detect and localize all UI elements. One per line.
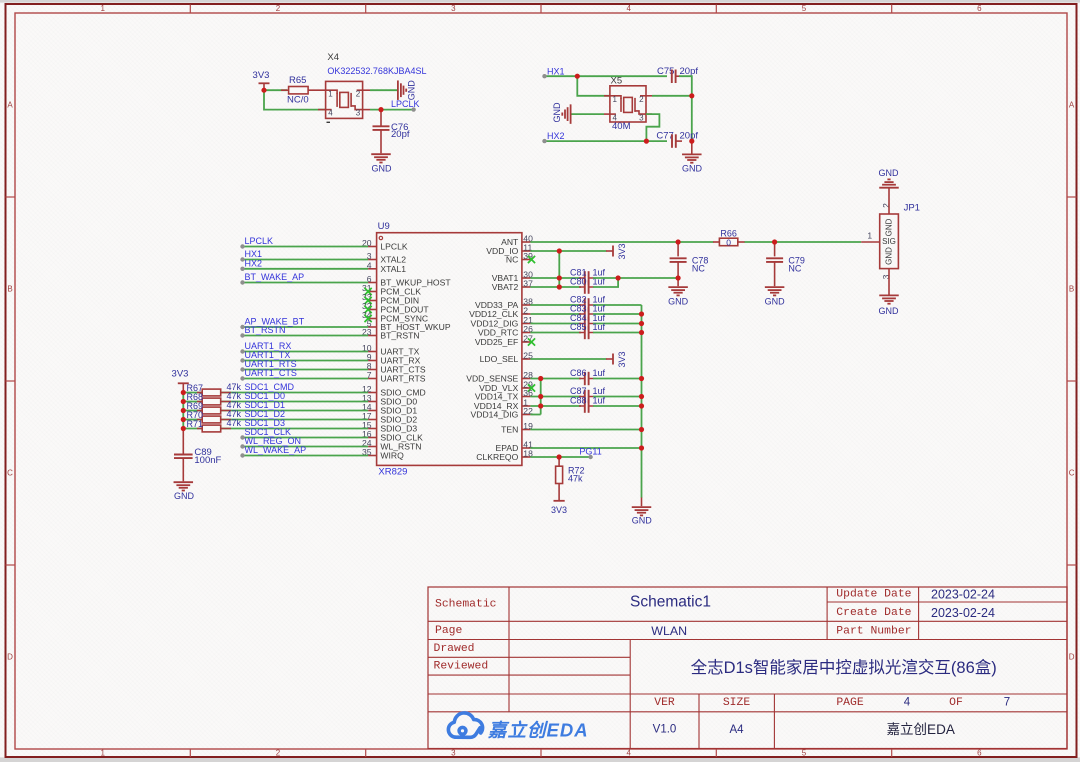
svg-text:2: 2	[276, 749, 281, 758]
svg-text:1uf: 1uf	[593, 304, 606, 314]
svg-text:GND: GND	[668, 296, 689, 306]
svg-text:100nF: 100nF	[194, 455, 221, 466]
svg-text:B: B	[1069, 285, 1074, 294]
svg-text:GND: GND	[552, 102, 562, 123]
svg-text:C87: C87	[570, 386, 587, 396]
svg-text:1uf: 1uf	[593, 396, 606, 406]
svg-text:C88: C88	[570, 396, 587, 406]
svg-text:HX2: HX2	[245, 258, 263, 268]
svg-text:LPCLK: LPCLK	[380, 242, 407, 252]
svg-text:2023-02-24: 2023-02-24	[931, 606, 995, 620]
svg-text:20pf: 20pf	[391, 129, 410, 140]
svg-text:C86: C86	[570, 368, 587, 378]
svg-text:Create Date: Create Date	[836, 607, 911, 619]
svg-text:VDD_SENSE: VDD_SENSE	[466, 374, 518, 384]
svg-text:3V3: 3V3	[551, 505, 567, 515]
svg-text:4: 4	[626, 749, 631, 758]
svg-text:2: 2	[356, 89, 361, 98]
svg-text:Schematic: Schematic	[435, 599, 497, 611]
svg-text:3V3: 3V3	[253, 70, 270, 81]
svg-text:Drawed: Drawed	[434, 643, 475, 655]
svg-text:6: 6	[977, 749, 982, 758]
svg-text:3V3: 3V3	[617, 351, 627, 367]
svg-text:4: 4	[328, 109, 333, 118]
svg-text:1: 1	[867, 231, 872, 241]
svg-text:R65: R65	[289, 75, 306, 86]
svg-text:WL_WAKE_AP: WL_WAKE_AP	[245, 445, 307, 455]
svg-text:SIZE: SIZE	[723, 697, 751, 709]
svg-text:C80: C80	[570, 277, 587, 287]
svg-text:NC: NC	[506, 255, 518, 265]
svg-text:C85: C85	[570, 322, 587, 332]
svg-text:BT_WAKE_AP: BT_WAKE_AP	[245, 272, 305, 282]
svg-text:VDD12_CLK: VDD12_CLK	[469, 309, 518, 319]
svg-text:VER: VER	[654, 697, 675, 709]
svg-text:0: 0	[726, 237, 731, 247]
svg-text:4: 4	[904, 697, 911, 709]
svg-text:XR829: XR829	[378, 467, 407, 478]
svg-text:3V3: 3V3	[172, 368, 189, 379]
svg-text:HX2: HX2	[547, 131, 565, 141]
svg-text:D: D	[1069, 653, 1075, 662]
svg-text:3: 3	[356, 109, 361, 118]
svg-text:GND: GND	[765, 296, 786, 306]
svg-text:X4: X4	[327, 52, 339, 63]
svg-text:GND: GND	[682, 163, 703, 173]
svg-text:Update Date: Update Date	[836, 589, 911, 601]
svg-text:20pf: 20pf	[680, 131, 699, 142]
svg-text:2: 2	[523, 306, 528, 316]
svg-text:NC: NC	[788, 264, 801, 274]
svg-text:5: 5	[802, 4, 807, 13]
svg-text:2: 2	[639, 95, 644, 104]
svg-text:GND: GND	[885, 247, 894, 265]
svg-text:GND: GND	[632, 516, 653, 526]
svg-text:A4: A4	[729, 724, 744, 736]
svg-text:B: B	[7, 285, 12, 294]
svg-text:LDO_SEL: LDO_SEL	[480, 354, 519, 364]
svg-text:WLAN: WLAN	[651, 624, 687, 638]
svg-text:4: 4	[626, 4, 631, 13]
svg-text:A: A	[7, 101, 13, 110]
svg-text:V1.0: V1.0	[653, 724, 677, 736]
svg-text:X5: X5	[611, 76, 623, 87]
svg-text:5: 5	[802, 749, 807, 758]
svg-text:VDD14_DIG: VDD14_DIG	[471, 410, 519, 420]
svg-text:U9: U9	[378, 221, 390, 232]
svg-text:1: 1	[100, 749, 105, 758]
svg-text:4: 4	[613, 113, 618, 122]
svg-text:47k: 47k	[568, 473, 583, 483]
svg-text:3V3: 3V3	[617, 243, 627, 259]
svg-text:1uf: 1uf	[593, 322, 606, 332]
svg-text:C83: C83	[570, 304, 587, 314]
svg-text:C: C	[1069, 469, 1075, 478]
svg-text:D: D	[7, 653, 13, 662]
svg-text:XTAL1: XTAL1	[380, 264, 406, 274]
svg-text:CLKREQO: CLKREQO	[476, 452, 518, 462]
svg-text:NC: NC	[692, 264, 705, 274]
svg-text:Part Number: Part Number	[836, 626, 911, 638]
svg-text:VDD25_EF: VDD25_EF	[475, 337, 518, 347]
svg-text:HX1: HX1	[547, 66, 565, 76]
svg-text:Reviewed: Reviewed	[434, 661, 489, 673]
svg-text:VDD_RTC: VDD_RTC	[478, 328, 518, 338]
svg-text:JP1: JP1	[904, 203, 920, 214]
svg-text:BT_RSTN: BT_RSTN	[380, 331, 419, 341]
svg-text:C: C	[7, 469, 13, 478]
svg-text:OK322532.768KJBA4SL: OK322532.768KJBA4SL	[327, 66, 426, 76]
svg-text:LPCLK: LPCLK	[391, 99, 420, 109]
svg-text:BT_RSTN: BT_RSTN	[245, 325, 286, 335]
svg-text:NC/0: NC/0	[287, 94, 309, 105]
svg-text:UART_RTS: UART_RTS	[380, 374, 425, 384]
svg-text:6: 6	[977, 4, 982, 13]
svg-text:VDD14_TX: VDD14_TX	[475, 392, 519, 402]
svg-text:GND: GND	[879, 306, 900, 316]
svg-text:3: 3	[451, 4, 456, 13]
svg-text:2023-02-24: 2023-02-24	[931, 587, 995, 601]
svg-text:嘉立创EDA: 嘉立创EDA	[487, 719, 589, 740]
svg-text:GND: GND	[885, 218, 894, 236]
svg-text:3: 3	[639, 113, 644, 122]
svg-text:UART1_CTS: UART1_CTS	[245, 368, 297, 378]
svg-text:GND: GND	[407, 80, 417, 101]
svg-text:1: 1	[328, 89, 333, 98]
svg-text:2: 2	[276, 4, 281, 13]
svg-text:PAGE: PAGE	[836, 697, 864, 709]
svg-text:OF: OF	[949, 697, 963, 709]
svg-text:20pf: 20pf	[680, 66, 699, 77]
svg-text:Page: Page	[435, 625, 463, 637]
svg-text:1uf: 1uf	[593, 368, 606, 378]
svg-text:WIRQ: WIRQ	[380, 451, 404, 461]
svg-text:7: 7	[1004, 697, 1010, 709]
svg-text:1uf: 1uf	[593, 386, 606, 396]
svg-text:1: 1	[613, 95, 618, 104]
svg-text:TEN: TEN	[501, 425, 518, 435]
svg-text:VBAT2: VBAT2	[492, 282, 519, 292]
svg-text:Schematic1: Schematic1	[630, 594, 711, 611]
svg-text:GND: GND	[372, 163, 393, 173]
svg-text:SIG: SIG	[882, 237, 896, 246]
svg-text:LPCLK: LPCLK	[245, 236, 274, 246]
svg-text:47k: 47k	[227, 418, 242, 428]
svg-text:GND: GND	[879, 168, 900, 178]
svg-text:40M: 40M	[612, 121, 631, 132]
svg-text:GND: GND	[174, 491, 195, 501]
svg-text:3: 3	[451, 749, 456, 758]
svg-text:R71: R71	[187, 419, 204, 429]
svg-text:全志D1s智能家居中控虚拟光渲交互(86盒): 全志D1s智能家居中控虚拟光渲交互(86盒)	[691, 658, 997, 677]
svg-text:1: 1	[100, 4, 105, 13]
svg-text:A: A	[1069, 101, 1075, 110]
svg-text:嘉立创EDA: 嘉立创EDA	[887, 722, 955, 737]
